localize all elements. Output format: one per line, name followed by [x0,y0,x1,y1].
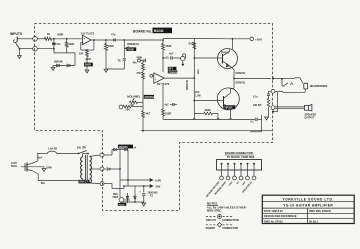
svg-text:+16V: +16V [155,178,162,182]
svg-text:+: + [166,54,168,58]
svg-text:-16V: -16V [155,184,161,188]
svg-text:HEADPHONES: HEADPHONES [310,85,328,88]
svg-text:115V: 115V [11,161,17,165]
svg-text:BLK: BLK [37,156,42,159]
svg-text:TIP30C: TIP30C [224,106,233,109]
svg-text:100K: 100K [108,44,114,48]
svg-text:DATE 1988-8-02: DATE 1988-8-02 [264,210,283,213]
svg-text:1.6A SB: 1.6A SB [48,148,57,151]
svg-text:(TREBLE): (TREBLE) [127,42,139,46]
svg-text:TC: TC [118,59,122,62]
svg-text:50K: 50K [126,108,131,111]
svg-text:22K: 22K [79,53,84,56]
svg-text:GRN: GRN [46,166,52,169]
svg-text:REG: REG [113,194,118,196]
svg-text:CONNECTOR: CONNECTOR [222,227,238,230]
svg-text:OUTPUT: OUTPUT [305,117,315,120]
svg-text:4u7: 4u7 [165,104,170,107]
svg-text:CONNECTION: CONNECTION [222,219,239,222]
svg-text:WH: WH [41,182,45,185]
svg-text:45n: 45n [133,62,138,65]
svg-text:BRN: BRN [198,69,200,74]
svg-text:1/2 TL072: 1/2 TL072 [81,31,95,35]
svg-text:47u: 47u [56,43,61,46]
svg-text:TONE: TONE [127,48,134,51]
svg-text:(VOLUME): (VOLUME) [127,95,140,99]
svg-text:SPKR IN: SPKR IN [186,80,189,90]
svg-text:B4243: B4243 [154,29,164,33]
svg-text:DESIGN=R&D REFERENCE: DESIGN=R&D REFERENCE [264,215,297,218]
svg-text:60Hz: 60Hz [11,164,18,168]
svg-text:INPUTS: INPUTS [10,32,23,36]
svg-text:TO BOARD, COMP SIDE: TO BOARD, COMP SIDE [227,156,255,159]
svg-text:1.5W: 1.5W [195,94,201,97]
svg-text:YS-10 GUITAR AMPLIFIER: YS-10 GUITAR AMPLIFIER [283,204,333,208]
svg-text:-: - [84,42,85,45]
svg-text:470K: 470K [136,57,142,60]
svg-text:P.B. SW: P.B. SW [77,147,87,150]
svg-text:BOARD: BOARD [206,227,215,230]
svg-text:+16V: +16V [255,37,262,41]
svg-text:100K: 100K [69,43,75,46]
svg-text:BOARD No.: BOARD No. [133,30,152,34]
svg-text:1K: 1K [47,32,50,36]
svg-text:NOTES: NOTES [207,202,217,206]
svg-text:4K7: 4K7 [146,113,151,116]
svg-text:220R: 220R [205,109,211,112]
svg-text:YORKVILLE SOUND LTD.: YORKVILLE SOUND LTD. [282,197,334,201]
svg-text:78L05: 78L05 [118,204,125,206]
svg-text:4u7: 4u7 [169,53,174,56]
svg-text:VR08: VR08 [112,197,118,199]
svg-text:SA0 CT: SA0 CT [79,181,88,184]
svg-text:100K: 100K [165,44,171,48]
svg-text:0.1u: 0.1u [253,96,258,98]
svg-text:DWG No. 87503: DWG No. 87503 [264,220,283,223]
svg-text:560R: 560R [57,33,63,36]
svg-text:R13: R13 [189,41,194,45]
svg-text:100R: 100R [165,111,171,115]
svg-text:WISE SPEC.: WISE SPEC. [207,208,222,212]
svg-text:2200: 2200 [86,58,92,61]
svg-text:1N4003: 1N4003 [119,146,128,149]
svg-text:10R 5W: 10R 5W [253,105,262,107]
svg-text:-: - [155,73,156,76]
svg-text:MASTER: MASTER [145,96,155,99]
svg-text:1N4148: 1N4148 [54,60,63,63]
svg-text:DWG MDL 00W1W: DWG MDL 00W1W [309,210,331,213]
svg-text:560R: 560R [85,64,91,67]
svg-text:GRN/YEL: GRN/YEL [236,73,247,75]
svg-text:47K: 47K [136,72,141,75]
svg-text:47n: 47n [111,33,116,37]
svg-text:GRN/YEL: GRN/YEL [236,82,247,84]
svg-text:ORANGE: ORANGE [169,71,179,74]
svg-text:BOARD CONNECTOR: BOARD CONNECTOR [225,151,253,155]
svg-text:CIRCUIT: CIRCUIT [206,219,217,222]
svg-text:Sh.No.1: Sh.No.1 [309,220,319,223]
svg-text:BFY: BFY [169,68,174,70]
